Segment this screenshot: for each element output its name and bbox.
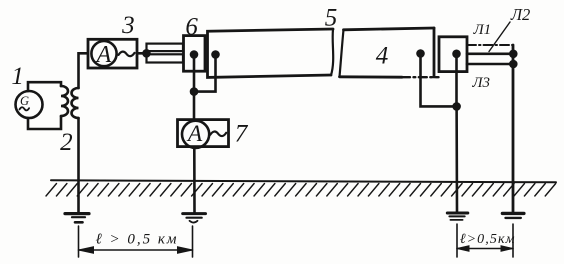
svg-text:2: 2 [60, 129, 73, 156]
earth surface hatching [46, 184, 556, 197]
svg-text:ℓ > 0,5 км: ℓ > 0,5 км [96, 232, 179, 248]
ammeter 3 box [88, 39, 137, 68]
wire secondary bottom to ground [77, 118, 80, 212]
generator 1 circle [16, 91, 43, 118]
terminal dot in cable section 4 [418, 51, 424, 57]
terminal dot in cable left end [213, 52, 219, 58]
svg-text:ℓ>0,5км: ℓ>0,5км [460, 232, 516, 247]
cable 5 right section bottom edge solid part [340, 75, 403, 78]
svg-text:6: 6 [185, 14, 198, 41]
wire junction to ground 3 [455, 106, 458, 212]
svg-text:1: 1 [11, 63, 24, 90]
cable 5 left section body [208, 29, 334, 77]
cable 5 right section break edge [340, 30, 344, 77]
ammeter 7 box [178, 120, 229, 147]
connecting cord upper conductor [147, 44, 184, 52]
terminal dot in end coupling [454, 51, 460, 57]
wire core L3 [467, 63, 513, 66]
dimension extension line left B [192, 226, 194, 257]
wire secondary top to ammeter 3 [79, 53, 89, 88]
ground 1 symbol [65, 212, 89, 215]
svg-text:A: A [95, 42, 112, 68]
cable end coupling box [439, 37, 467, 72]
svg-text:G: G [20, 94, 29, 108]
dimension arrow left [79, 249, 193, 251]
ammeter 7 ~ mark [210, 132, 226, 137]
cable 5 right section right edge [433, 28, 436, 77]
earth surface line [51, 180, 556, 182]
ground 2 symbol [183, 212, 206, 215]
label L1 leader [489, 22, 510, 52]
wire box6 terminal down [193, 55, 196, 92]
ground 4 symbol [502, 212, 524, 215]
dimension extension line left A [78, 226, 80, 257]
svg-text:Л3: Л3 [471, 75, 490, 91]
wire core L1 [467, 52, 513, 55]
wire fault terminal down and right [421, 54, 457, 107]
wire generator loop bottom [28, 116, 61, 129]
cable 5 right section top edge [344, 28, 435, 30]
ammeter 3 circle [91, 41, 116, 66]
terminal dot in box 6 [191, 52, 197, 58]
dimension extension line right A [456, 224, 458, 257]
node dot L3 on line [510, 61, 516, 67]
cable 5 right section bottom edge dash-dot part [402, 76, 439, 78]
svg-text:Л2: Л2 [510, 5, 530, 24]
ground 3 symbol [447, 212, 468, 215]
junction dot [144, 50, 150, 56]
cable 5 left section break edge [331, 30, 333, 76]
wire junction to ammeter 7 [193, 92, 196, 120]
connecting cord lower conductor [147, 54, 184, 62]
wire cable sheath terminal down [194, 55, 216, 92]
svg-text:3: 3 [121, 12, 135, 39]
terminal box 6 [184, 36, 206, 72]
svg-text:7: 7 [235, 121, 249, 148]
transformer 2 secondary coil [72, 88, 79, 118]
wire end coupling terminal down [455, 54, 458, 107]
wire ammeter 3 to junction [137, 52, 147, 55]
node dot L1 on line [510, 51, 516, 57]
ammeter 7 circle [182, 121, 209, 148]
wire generator loop top [28, 82, 61, 91]
junction dot below box 6 [191, 89, 197, 95]
dimension arrow right [457, 248, 513, 250]
wire line L2 vertical [512, 45, 515, 212]
junction dot below coupling [454, 103, 460, 109]
svg-text:5: 5 [325, 5, 338, 32]
svg-text:Л1: Л1 [472, 22, 491, 38]
svg-text:4: 4 [376, 43, 389, 70]
generator 1 ~ mark [20, 107, 30, 110]
dimension extension line right B [512, 224, 514, 257]
wire ammeter 7 to ground 2 [193, 148, 196, 213]
svg-text:A: A [186, 121, 203, 147]
sheath dash-dot line to line L2 [467, 44, 513, 46]
transformer 2 primary coil [61, 86, 68, 116]
ammeter 3 ~ mark [119, 52, 135, 57]
